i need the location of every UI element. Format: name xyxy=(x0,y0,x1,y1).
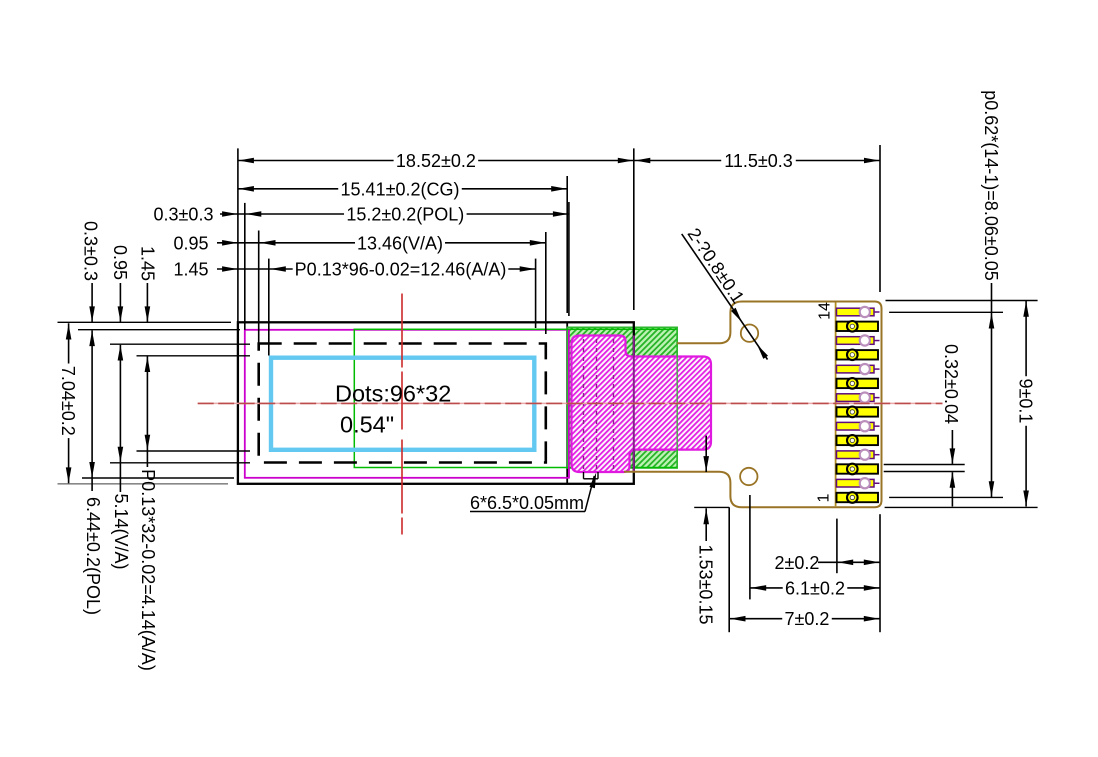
svg-text:0.95: 0.95 xyxy=(110,245,130,280)
svg-text:6.44±0.2(POL): 6.44±0.2(POL) xyxy=(83,497,103,615)
svg-text:0.54": 0.54" xyxy=(340,412,394,438)
svg-text:Dots:96*32: Dots:96*32 xyxy=(335,380,451,406)
svg-text:0.95: 0.95 xyxy=(173,233,208,253)
svg-text:2±0.2: 2±0.2 xyxy=(775,553,820,573)
svg-text:15.2±0.2(POL): 15.2±0.2(POL) xyxy=(346,204,464,224)
svg-text:p0.62*(14-1)=8.06±0.05: p0.62*(14-1)=8.06±0.05 xyxy=(981,90,1001,281)
svg-text:1: 1 xyxy=(815,493,832,502)
svg-text:14: 14 xyxy=(816,302,833,320)
svg-text:9±0.1: 9±0.1 xyxy=(1016,379,1036,424)
svg-text:1.53±0.15: 1.53±0.15 xyxy=(696,545,716,625)
svg-text:P0.13*32-0.02=4.14(A/A): P0.13*32-0.02=4.14(A/A) xyxy=(138,469,158,671)
svg-text:P0.13*96-0.02=12.46(A/A): P0.13*96-0.02=12.46(A/A) xyxy=(295,259,507,279)
svg-text:1.45: 1.45 xyxy=(138,246,158,281)
svg-text:6*6.5*0.05mm: 6*6.5*0.05mm xyxy=(470,493,584,513)
svg-text:7.04±0.2: 7.04±0.2 xyxy=(58,366,78,436)
svg-text:0.3±0.3: 0.3±0.3 xyxy=(154,204,214,224)
svg-text:15.41±0.2(CG): 15.41±0.2(CG) xyxy=(341,179,460,199)
svg-text:0.32±0.04: 0.32±0.04 xyxy=(941,344,961,424)
svg-text:0.3±0.3: 0.3±0.3 xyxy=(81,221,101,281)
svg-text:11.5±0.3: 11.5±0.3 xyxy=(724,151,793,171)
svg-text:5.14(V/A): 5.14(V/A) xyxy=(111,493,131,569)
svg-text:13.46(V/A): 13.46(V/A) xyxy=(357,233,443,253)
svg-text:18.52±0.2: 18.52±0.2 xyxy=(396,151,476,171)
svg-text:7±0.2: 7±0.2 xyxy=(785,609,830,629)
svg-text:6.1±0.2: 6.1±0.2 xyxy=(785,578,845,598)
svg-text:1.45: 1.45 xyxy=(173,259,208,279)
